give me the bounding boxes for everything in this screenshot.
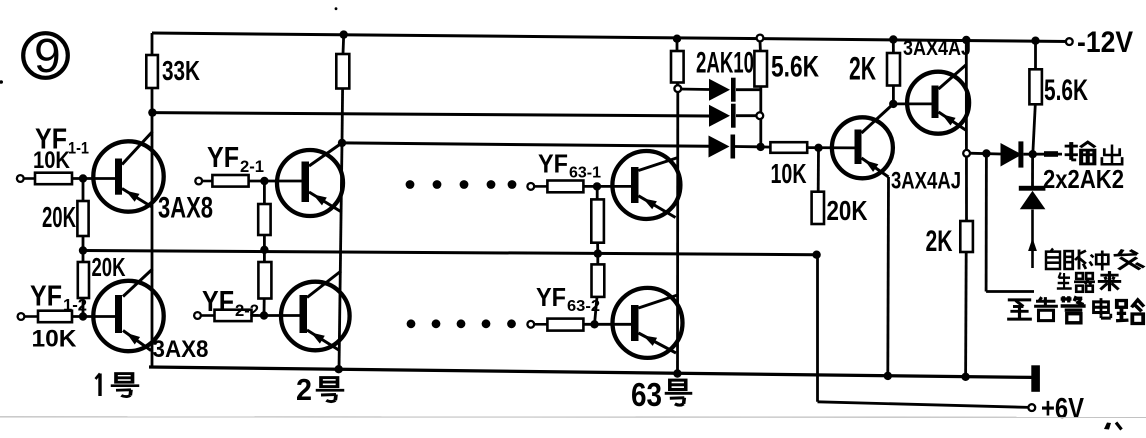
svg-text:20K: 20K xyxy=(827,195,868,226)
svg-text:2: 2 xyxy=(296,372,312,407)
svg-text:YF: YF xyxy=(35,124,67,156)
svg-text:+6V: +6V xyxy=(1041,393,1085,425)
svg-text:YF: YF xyxy=(202,286,234,318)
svg-text:2K: 2K xyxy=(926,225,953,258)
svg-text:2AK10: 2AK10 xyxy=(696,47,754,80)
svg-text:5.6K: 5.6K xyxy=(1044,74,1088,107)
svg-text:1-2: 1-2 xyxy=(63,296,87,315)
svg-text:63: 63 xyxy=(631,376,662,413)
svg-text:20K: 20K xyxy=(92,252,126,282)
svg-text:5.6K: 5.6K xyxy=(771,51,819,84)
svg-text:9: 9 xyxy=(34,30,61,83)
svg-text:10K: 10K xyxy=(771,158,807,189)
svg-text:3AX4AJ: 3AX4AJ xyxy=(891,168,961,195)
svg-text:YF: YF xyxy=(30,281,62,313)
svg-text:3AX8: 3AX8 xyxy=(158,192,213,225)
svg-text:20K: 20K xyxy=(42,202,76,234)
svg-text:2-2: 2-2 xyxy=(235,301,259,320)
svg-text:2K: 2K xyxy=(849,51,876,87)
svg-text:-12V: -12V xyxy=(1077,26,1133,59)
svg-text:2-1: 2-1 xyxy=(240,157,264,176)
svg-text:YF: YF xyxy=(538,149,568,179)
svg-text:1-1: 1-1 xyxy=(68,139,89,158)
svg-text:YF: YF xyxy=(536,282,566,312)
svg-text:33K: 33K xyxy=(162,55,200,86)
svg-text:3AX8: 3AX8 xyxy=(153,336,209,363)
svg-text:3AX4AJ: 3AX4AJ xyxy=(903,37,971,60)
svg-text:10K: 10K xyxy=(32,326,78,353)
svg-text:2x2AK2: 2x2AK2 xyxy=(1043,164,1124,194)
svg-text:63-2: 63-2 xyxy=(567,298,600,315)
svg-text:63-1: 63-1 xyxy=(569,165,601,182)
svg-text:YF: YF xyxy=(207,142,239,174)
